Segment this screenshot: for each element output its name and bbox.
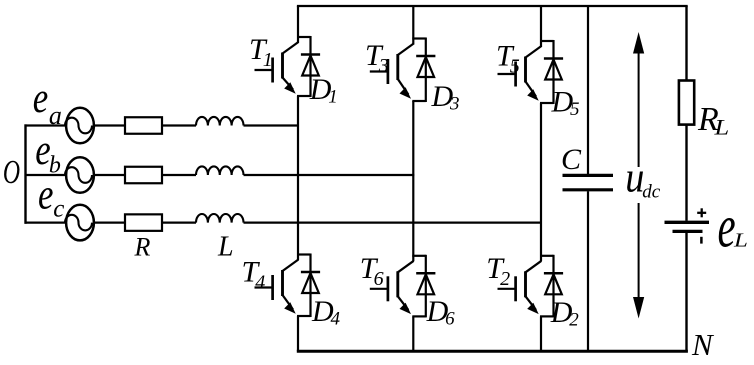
battery minus mark	[700, 237, 703, 244]
resistor R phase a	[125, 117, 162, 134]
wire: load branch top lead	[685, 6, 687, 81]
label T2	[486, 252, 510, 290]
wire: D2 cathode branch vertical	[552, 255, 554, 318]
resistor R_L	[679, 81, 694, 125]
wire: D3 branch bottom jog	[412, 100, 426, 102]
svg-text:6: 6	[445, 309, 455, 330]
label T3	[365, 39, 389, 77]
svg-text:L: L	[713, 115, 729, 139]
wire: D4 branch top jog	[297, 253, 311, 255]
resistor R phase c	[125, 214, 162, 231]
svg-text:5: 5	[570, 99, 580, 120]
diode D6	[416, 273, 435, 294]
transistor T6 (IGBT)	[370, 261, 414, 314]
node O label	[3, 154, 20, 191]
svg-text:a: a	[49, 101, 62, 130]
wire: negative DC rail (bottom, node N)	[297, 350, 688, 353]
wire: resistor to inductor phase a	[162, 124, 196, 126]
wire: D1 branch top jog	[297, 36, 311, 38]
wire: source e_c to resistor	[94, 222, 125, 224]
wire: D6 branch bottom jog	[412, 315, 426, 317]
wire: R_L to battery e_L	[685, 125, 687, 221]
wire: leg 1 top stub	[297, 6, 299, 43]
svg-text:1: 1	[328, 87, 338, 108]
transistor T2 (IGBT)	[498, 261, 542, 314]
svg-text:e: e	[38, 171, 53, 218]
wire: resistor to inductor phase b	[162, 174, 196, 176]
diode D1	[301, 55, 320, 76]
capacitor C	[563, 175, 614, 189]
svg-text:L: L	[733, 229, 748, 251]
wire: leg 3 midsection (node c)	[540, 103, 542, 261]
wire: D2 branch top jog	[540, 255, 554, 257]
label u_dc	[625, 154, 661, 203]
wire: resistor to inductor phase c	[162, 222, 196, 224]
svg-text:2: 2	[569, 310, 579, 331]
label D6	[426, 295, 456, 330]
svg-text:R: R	[134, 233, 151, 262]
wire: bus to source e_a	[25, 124, 67, 126]
wire: D4 cathode branch vertical	[309, 254, 311, 318]
wire: D4 branch bottom jog	[297, 315, 311, 317]
label T5	[496, 39, 520, 77]
label L	[217, 232, 234, 263]
label C	[561, 143, 582, 176]
svg-text:5: 5	[510, 55, 520, 77]
wire: battery to bottom rail	[685, 231, 687, 351]
wire: source e_b to resistor	[94, 174, 125, 176]
label e_c	[38, 171, 64, 223]
label D5	[551, 86, 580, 121]
svg-text:6: 6	[374, 268, 384, 290]
diode D3	[416, 56, 435, 77]
svg-text:c: c	[53, 196, 64, 223]
label D2	[550, 296, 580, 331]
node N label	[691, 327, 715, 362]
battery e_L	[665, 222, 710, 231]
wire: D5 branch bottom jog	[540, 102, 554, 104]
svg-text:4: 4	[255, 272, 265, 294]
svg-text:dc: dc	[642, 181, 661, 202]
wire: leg 2 bottom stub	[412, 316, 414, 351]
label D4	[311, 295, 341, 330]
label T4	[242, 256, 266, 294]
label D3	[431, 80, 460, 115]
svg-text:1: 1	[263, 49, 273, 71]
wire: D2 branch bottom jog	[540, 315, 554, 317]
wire: positive DC rail (top)	[297, 5, 688, 7]
wire: D6 cathode branch vertical	[425, 255, 427, 318]
wire: leg 1 bottom stub	[297, 316, 299, 351]
inductor L phase c	[196, 214, 244, 223]
transistor T3 (IGBT)	[370, 44, 414, 99]
wire: capacitor bottom lead	[587, 191, 589, 351]
wire: D3 cathode branch vertical	[425, 38, 427, 103]
wire: left vertical bus (node O)	[24, 124, 26, 223]
wire: leg 2 top stub	[412, 6, 414, 45]
transistor T1 (IGBT)	[255, 42, 299, 94]
inductor L phase b	[196, 166, 244, 175]
wire: leg 1 midsection (node a)	[297, 96, 299, 260]
wire: bus to source e_c	[25, 222, 67, 224]
label R	[134, 233, 151, 262]
transistor T5 (IGBT)	[498, 46, 542, 101]
label R_L	[697, 101, 729, 140]
svg-text:e: e	[718, 194, 736, 261]
svg-text:3: 3	[449, 94, 460, 115]
wire: D1 cathode branch vertical	[309, 36, 311, 97]
ac source e_c	[65, 205, 94, 241]
wire: D6 branch top jog	[412, 255, 426, 257]
wire: source e_a to resistor	[94, 124, 125, 126]
wire: leg 2 midsection (node b)	[412, 101, 414, 261]
svg-text:L: L	[217, 232, 234, 263]
wire: D5 cathode branch vertical	[552, 40, 554, 104]
svg-text:e: e	[33, 75, 48, 122]
wire: leg 3 bottom stub	[540, 316, 542, 351]
svg-text:C: C	[561, 143, 582, 176]
label e_L	[718, 194, 748, 261]
label T6	[360, 252, 384, 290]
diode D5	[544, 59, 563, 80]
ac source e_a	[65, 108, 94, 144]
svg-text:N: N	[691, 327, 715, 362]
diode D4	[301, 272, 320, 293]
wire: leg 3 top stub	[540, 6, 542, 47]
battery plus sign	[697, 208, 706, 217]
ac source e_b	[65, 157, 94, 193]
svg-text:O: O	[3, 154, 20, 191]
diode D2	[544, 273, 563, 294]
label D1	[309, 73, 338, 108]
inductor L phase a	[196, 117, 244, 126]
label e_a	[33, 75, 62, 130]
wire: phase a to leg 1	[244, 124, 300, 126]
wire: phase c to leg 3	[244, 222, 543, 224]
wire: D5 branch top jog	[540, 40, 554, 42]
svg-text:3: 3	[378, 55, 389, 77]
wire: bus to source e_b	[25, 174, 67, 176]
u_dc arrow (double headed)	[633, 32, 644, 319]
label T1	[249, 33, 273, 71]
label e_b	[35, 126, 61, 178]
wire: D1 branch bottom jog	[297, 95, 311, 97]
resistor R phase b	[125, 167, 162, 184]
transistor T4 (IGBT)	[255, 260, 299, 314]
svg-text:4: 4	[331, 309, 341, 330]
wire: capacitor top lead	[587, 6, 589, 174]
wire: D3 branch top jog	[412, 37, 426, 39]
svg-text:2: 2	[500, 268, 510, 290]
wire: phase b to leg 2	[244, 174, 415, 176]
